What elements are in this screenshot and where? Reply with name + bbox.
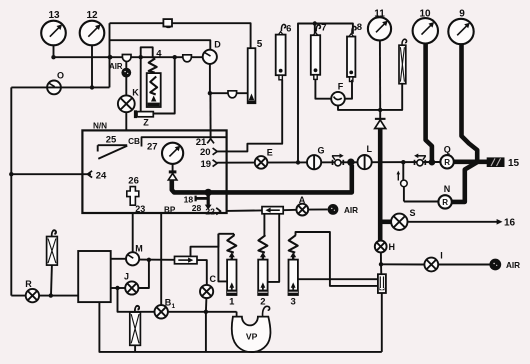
wire BP drop bbox=[161, 205, 176, 305]
svg-text:15: 15 bbox=[508, 158, 520, 169]
svg-text:AIR: AIR bbox=[344, 206, 358, 215]
svg-text:Z: Z bbox=[143, 118, 149, 128]
wire riser to Z bbox=[140, 57, 142, 111]
lamp H bbox=[375, 241, 395, 253]
air ball mid bbox=[328, 204, 359, 215]
node regulator branch bbox=[401, 160, 405, 164]
svg-text:13: 13 bbox=[48, 10, 60, 21]
svg-text:O: O bbox=[57, 71, 64, 81]
brake chamber 3 bbox=[289, 235, 298, 307]
svg-text:Q: Q bbox=[444, 145, 451, 155]
element Z bbox=[134, 110, 153, 127]
wire valve to rail bbox=[381, 293, 383, 352]
junction M line bbox=[147, 258, 151, 262]
svg-text:R: R bbox=[25, 279, 32, 289]
svg-text:E: E bbox=[267, 147, 273, 157]
svg-text:11: 11 bbox=[374, 8, 385, 19]
air supply ball bbox=[121, 62, 131, 96]
wire F to 8 bbox=[345, 80, 352, 99]
antifreeze pump mid bbox=[130, 306, 141, 352]
svg-text:R: R bbox=[444, 158, 450, 167]
svg-text:3: 3 bbox=[291, 297, 296, 308]
valve M bbox=[126, 243, 143, 265]
wire M line bbox=[111, 259, 175, 260]
wire distribution y162 bbox=[217, 161, 441, 164]
drain tap 2 bbox=[414, 154, 426, 166]
gauge 12 bbox=[80, 10, 105, 87]
wire spring riser cyl2 bbox=[263, 214, 265, 236]
junction 7 top bbox=[313, 21, 317, 34]
one-way valve left bbox=[262, 207, 283, 214]
node branch right of 4 bbox=[173, 55, 177, 59]
svg-text:5: 5 bbox=[257, 39, 263, 50]
wire I to air ball bbox=[438, 264, 489, 266]
svg-text:26: 26 bbox=[128, 175, 139, 186]
svg-text:F: F bbox=[338, 81, 344, 91]
svg-text:1: 1 bbox=[229, 297, 235, 308]
gauge 9 bbox=[448, 8, 477, 162]
junction under 11 bbox=[378, 108, 382, 112]
junction R line bbox=[49, 293, 53, 297]
coupling cup AIR supply bbox=[122, 55, 131, 62]
wire F outlet bbox=[338, 106, 380, 110]
valve under 27 bbox=[168, 164, 177, 180]
wire to port 24 bbox=[11, 171, 107, 182]
box N/N bbox=[82, 122, 226, 213]
svg-text:J: J bbox=[124, 272, 129, 282]
svg-text:22: 22 bbox=[205, 207, 215, 217]
relay valve N bbox=[438, 184, 451, 209]
wire D into control box 21 bbox=[209, 93, 211, 139]
wire A to air ball bbox=[308, 208, 327, 210]
element 8 bbox=[347, 22, 362, 82]
brake chamber 2 bbox=[258, 235, 267, 307]
lamp I bbox=[424, 251, 442, 272]
svg-text:24: 24 bbox=[96, 171, 107, 182]
port 19 arrow bbox=[201, 159, 218, 170]
wire D to node bbox=[209, 64, 211, 93]
svg-text:S: S bbox=[409, 208, 415, 218]
brake chamber 1 bbox=[227, 235, 236, 307]
junction J line bbox=[115, 286, 119, 290]
wire left bus bbox=[10, 87, 12, 295]
wire node to element 5 bbox=[210, 92, 248, 94]
svg-text:M: M bbox=[135, 243, 143, 253]
valve D bbox=[203, 40, 222, 64]
wire side feed cyl1 bbox=[218, 234, 227, 282]
svg-text:10: 10 bbox=[419, 8, 431, 19]
svg-text:6: 6 bbox=[286, 24, 291, 35]
junction at gauge 13 bbox=[51, 55, 55, 59]
lamp B1 bbox=[155, 297, 176, 318]
svg-text:BP: BP bbox=[164, 205, 176, 214]
junction node under 12 riser bbox=[108, 55, 113, 60]
pipe stub to S bbox=[381, 220, 391, 225]
wire to B1 bbox=[118, 288, 155, 312]
wire H below bbox=[380, 252, 382, 264]
junction gauge12 drop bbox=[90, 85, 94, 89]
svg-text:L: L bbox=[367, 144, 373, 154]
wire valve4 return bbox=[153, 57, 174, 113]
pipe node at L bbox=[347, 159, 354, 166]
svg-text:R: R bbox=[442, 198, 448, 207]
svg-text:AIR: AIR bbox=[506, 261, 520, 270]
lamp S bbox=[391, 208, 415, 230]
svg-text:28: 28 bbox=[192, 203, 202, 213]
box CB bbox=[128, 137, 227, 147]
svg-text:4: 4 bbox=[156, 49, 162, 60]
valve 4 spring upper bbox=[149, 49, 163, 73]
svg-text:AIR: AIR bbox=[109, 62, 123, 71]
svg-text:D: D bbox=[214, 40, 221, 50]
riser x109.5 top-wire to O-line bbox=[109, 23, 111, 87]
wire supply y57 bbox=[54, 56, 203, 58]
one-way valve M-C bbox=[175, 256, 198, 263]
wire valve to C bbox=[197, 260, 207, 285]
check valve main bbox=[375, 110, 386, 129]
pipe node gauge10 bbox=[429, 159, 436, 166]
wire riser to top manifold bbox=[298, 24, 353, 163]
wire M to J bbox=[138, 260, 149, 288]
gauge F bbox=[331, 81, 345, 105]
svg-text:27: 27 bbox=[147, 141, 158, 152]
svg-text:N: N bbox=[444, 184, 451, 194]
relay valve Q bbox=[440, 145, 453, 169]
element antifreeze bbox=[380, 39, 406, 110]
coupling head 15 bbox=[487, 157, 520, 168]
pipe Q to coupling 15 bbox=[454, 160, 488, 165]
lamp K bbox=[118, 88, 139, 131]
switch G bbox=[307, 146, 325, 170]
wire top y23 to element 5 bbox=[110, 23, 251, 48]
svg-text:8: 8 bbox=[357, 22, 362, 33]
svg-text:VP: VP bbox=[246, 332, 258, 342]
port 20 arrow and wire to 6 bbox=[200, 80, 282, 158]
wire O line bbox=[11, 86, 109, 88]
svg-text:9: 9 bbox=[459, 8, 465, 19]
wire spring link cyl3 bbox=[296, 232, 378, 286]
circle O bbox=[47, 71, 64, 95]
wire to lamp A bbox=[283, 209, 296, 211]
lamp J bbox=[124, 272, 138, 295]
coupling cup at D bbox=[183, 55, 192, 62]
antifreeze pump left bbox=[47, 230, 58, 296]
lamp R bbox=[25, 279, 39, 302]
wire spring link cyl1 bbox=[218, 234, 234, 236]
svg-text:K: K bbox=[132, 88, 139, 98]
gauge 11 bbox=[368, 8, 391, 110]
lamp A bbox=[296, 195, 308, 216]
svg-text:A: A bbox=[299, 195, 306, 205]
wire S to port 16 bbox=[408, 218, 516, 229]
port 22 label bbox=[205, 207, 220, 217]
wire C down bbox=[205, 298, 208, 312]
wire pilot bracket M bbox=[191, 234, 219, 257]
port 18 tick bbox=[184, 194, 209, 204]
pipe main delivery bbox=[172, 165, 352, 192]
junction riser 7-8 bbox=[296, 160, 300, 164]
wire drop to rail bbox=[205, 312, 207, 352]
svg-text:23: 23 bbox=[135, 204, 145, 214]
reservoir VP bbox=[232, 306, 271, 352]
drain tap 1 bbox=[332, 154, 344, 166]
svg-text:C: C bbox=[210, 274, 217, 284]
svg-text:2: 2 bbox=[260, 297, 265, 308]
node under D bbox=[208, 91, 212, 95]
pilot bracket to valve 4 bbox=[141, 47, 153, 58]
svg-text:19: 19 bbox=[201, 159, 212, 170]
pipe main riser bbox=[378, 129, 383, 242]
pipe N to junction bbox=[452, 162, 477, 202]
svg-text:25: 25 bbox=[106, 134, 117, 145]
wire y40 to valve D bbox=[110, 40, 211, 50]
svg-text:7: 7 bbox=[321, 23, 326, 34]
wire J to box bbox=[111, 287, 126, 289]
wire R line bbox=[11, 295, 78, 297]
wire bottom rail bbox=[99, 302, 381, 352]
svg-text:G: G bbox=[317, 146, 324, 156]
label 28 bbox=[192, 203, 202, 213]
wire side feed cyl2 bbox=[268, 214, 280, 282]
pipe stub port 22 bbox=[205, 192, 212, 209]
coupling cup at 5 bbox=[228, 91, 237, 98]
lamp E bbox=[255, 147, 273, 168]
wire B1 to VP bbox=[168, 311, 237, 313]
valve 4 body bbox=[147, 73, 161, 107]
governor box bbox=[78, 251, 111, 302]
port 21 arrow bbox=[196, 137, 214, 148]
coupling fitting on top wire bbox=[163, 19, 172, 28]
pressure regulator small bbox=[397, 162, 439, 201]
gauge 13 bbox=[41, 10, 66, 57]
svg-text:20: 20 bbox=[200, 147, 211, 158]
junction 24 tee bbox=[9, 172, 13, 176]
element 26 bbox=[127, 175, 139, 205]
AIR label left bbox=[109, 62, 123, 71]
wire box to valve Abox bbox=[227, 209, 262, 212]
svg-text:N/N: N/N bbox=[93, 122, 107, 131]
svg-text:12: 12 bbox=[86, 10, 98, 21]
wire side feed cyl3 bbox=[298, 278, 378, 280]
node branch 4 bbox=[139, 55, 143, 59]
element 7 bbox=[311, 23, 327, 80]
lamp C bbox=[200, 274, 217, 298]
element 5 bbox=[248, 39, 263, 103]
junction below H bbox=[379, 262, 383, 266]
wire to lamp I bbox=[381, 263, 424, 265]
wire 23 drop bbox=[133, 204, 146, 253]
junction B1 line bbox=[204, 310, 208, 314]
wire 7 to F bbox=[315, 80, 331, 99]
element 6 bbox=[276, 24, 292, 80]
switch L bbox=[358, 144, 373, 169]
gauge 27 bbox=[147, 141, 183, 164]
pipe junction dot 22 bbox=[205, 189, 212, 196]
protection valve bbox=[378, 264, 386, 293]
svg-text:CB: CB bbox=[128, 137, 140, 146]
svg-text:H: H bbox=[389, 242, 396, 252]
svg-text:I: I bbox=[440, 251, 443, 261]
svg-text:16: 16 bbox=[504, 218, 516, 229]
element 25 bbox=[98, 134, 128, 159]
air ball right bbox=[489, 259, 520, 271]
gauge 10 bbox=[413, 8, 438, 162]
svg-text:1: 1 bbox=[171, 303, 175, 310]
